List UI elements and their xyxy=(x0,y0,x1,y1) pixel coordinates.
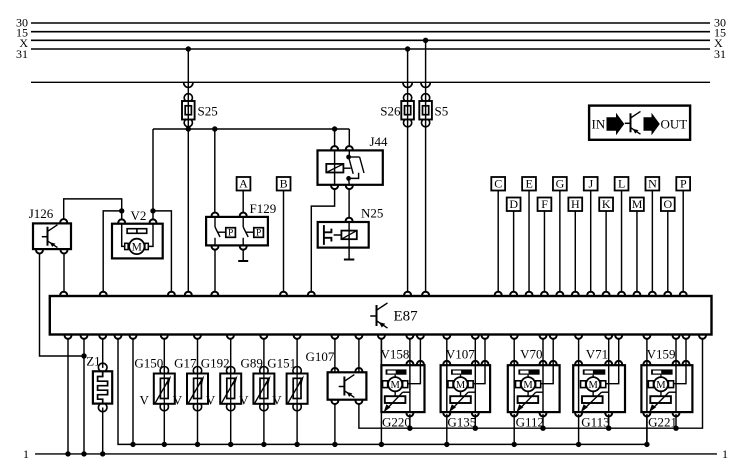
label B xyxy=(280,177,288,191)
svg-text:V: V xyxy=(272,392,282,407)
sender G113 thermistor xyxy=(581,392,603,412)
bus line 15 xyxy=(31,31,710,33)
wire G135 to rail xyxy=(473,414,478,431)
V158 motor xyxy=(383,377,408,391)
ground F129 xyxy=(238,260,248,262)
svg-text:F: F xyxy=(541,197,548,211)
label A xyxy=(239,177,248,191)
legend arrow out xyxy=(644,113,660,136)
heater Z1 box xyxy=(93,371,112,403)
svg-text:M: M xyxy=(523,380,533,391)
wire E87 to V70 A xyxy=(513,338,515,365)
plug C box and wire xyxy=(491,177,505,293)
bus line 5 xyxy=(31,81,710,83)
pin F129 bottom-right xyxy=(240,246,247,250)
svg-text:31: 31 xyxy=(714,47,726,61)
svg-text:G135: G135 xyxy=(447,414,476,429)
V158 internal wires xyxy=(395,365,420,412)
wire bus B1 xyxy=(153,128,349,130)
Z1 element xyxy=(98,371,108,403)
wire V159 to sub-bus xyxy=(644,414,649,447)
wire G107 to sub-bus xyxy=(332,403,337,447)
svg-text:1: 1 xyxy=(23,447,29,461)
svg-text:IN: IN xyxy=(592,117,606,132)
svg-text:31: 31 xyxy=(16,47,28,61)
wire J44 to N25 xyxy=(348,188,350,219)
valve N25 box xyxy=(318,222,369,248)
node B1-F129 tap xyxy=(212,126,217,131)
wire G220 to rail xyxy=(407,414,412,431)
F129 switch 1 xyxy=(215,217,235,246)
svg-text:V: V xyxy=(140,392,150,407)
pins V107 top xyxy=(443,361,488,365)
pin G107 top-right xyxy=(355,368,362,372)
V2 motor xyxy=(125,239,149,254)
svg-text:M: M xyxy=(456,380,466,391)
sensor sub-bus xyxy=(118,338,647,445)
label 1 right xyxy=(722,447,728,461)
svg-text:E: E xyxy=(525,177,532,191)
svg-text:J: J xyxy=(588,177,593,191)
pin J126 top xyxy=(60,219,67,223)
sender G150 with V gauge label xyxy=(134,338,174,447)
label J44 xyxy=(370,134,389,149)
plug N box and wire xyxy=(645,177,659,293)
pin J44 bottom-left xyxy=(331,185,338,189)
label 30 left xyxy=(16,15,28,29)
wire Z1 to bus1 xyxy=(102,408,104,454)
V107 motor xyxy=(448,377,473,391)
label V158 xyxy=(381,346,410,361)
wire E87 to V70 B xyxy=(542,338,544,365)
svg-text:M: M xyxy=(390,380,400,391)
svg-text:S5: S5 xyxy=(435,104,449,119)
sender G89 with V gauge label xyxy=(239,338,274,447)
wire V70 to sub-bus xyxy=(512,414,517,447)
V159 motor xyxy=(648,377,673,391)
svg-text:P: P xyxy=(256,228,261,238)
plug A box xyxy=(237,177,251,191)
svg-text:V: V xyxy=(239,392,249,407)
motor V107 box xyxy=(441,365,491,412)
plug E box and wire xyxy=(522,177,536,293)
label V159 xyxy=(647,346,676,361)
wire G221 to rail xyxy=(673,414,678,431)
plug B box xyxy=(277,177,291,191)
V2 internal wires xyxy=(122,224,153,247)
wire J44 contact feed xyxy=(348,129,350,147)
ground N25 xyxy=(344,259,354,261)
plug F box and wire xyxy=(538,197,552,293)
pin N25 top xyxy=(346,218,353,222)
svg-text:V159: V159 xyxy=(647,346,676,361)
svg-text:N: N xyxy=(648,177,657,191)
svg-text:V71: V71 xyxy=(586,346,608,361)
V71 internal wires xyxy=(579,365,619,412)
crossing hop S26 xyxy=(403,83,412,88)
coil J44 xyxy=(326,164,343,173)
svg-text:H: H xyxy=(571,197,580,211)
node S5 tap on line X xyxy=(423,38,428,43)
svg-text:V: V xyxy=(173,392,183,407)
label V2 xyxy=(131,208,147,223)
svg-text:A: A xyxy=(239,177,248,191)
crossing hop S5 xyxy=(421,83,430,88)
label J126 xyxy=(29,206,54,221)
wire N25 internal xyxy=(348,222,350,260)
svg-text:V107: V107 xyxy=(446,346,475,361)
pins V107 bottom xyxy=(443,412,478,416)
wire E87 to V158 C xyxy=(419,338,421,365)
node V2 left xyxy=(119,208,124,213)
wire F129 to ground xyxy=(242,249,244,261)
pin G107 bottom-right xyxy=(355,400,362,404)
wire E87 to V71 C xyxy=(618,338,620,365)
svg-text:J44: J44 xyxy=(370,134,389,149)
label 15 left xyxy=(16,26,28,40)
sender G221 thermistor xyxy=(649,392,671,412)
svg-text:M: M xyxy=(132,242,142,254)
wire E87 to V71 B xyxy=(608,338,610,365)
svg-text:D: D xyxy=(509,197,518,211)
plug J box and wire xyxy=(584,177,598,293)
wire S5 vertical upper xyxy=(425,40,427,292)
label S26 xyxy=(380,104,401,119)
node 133 sub-bus xyxy=(130,338,135,447)
wire V71 to sub-bus xyxy=(576,414,581,447)
svg-text:P: P xyxy=(228,228,233,238)
wire bus B1 down to V2 xyxy=(152,129,154,211)
J126 transistor xyxy=(42,225,58,248)
V70 motor xyxy=(516,377,541,391)
label E87 xyxy=(394,309,419,325)
F129 switch 2 xyxy=(243,217,263,246)
wire V2 right pin xyxy=(152,211,154,220)
label X left xyxy=(19,36,28,50)
wire B1 to F129 xyxy=(214,129,216,214)
svg-text:N25: N25 xyxy=(361,206,383,221)
sender G220 thermistor xyxy=(384,392,406,412)
wire E87 to G107 left xyxy=(334,338,336,372)
V158 commutator bar xyxy=(386,369,407,374)
svg-text:G107: G107 xyxy=(306,349,335,364)
wire S26 vertical upper xyxy=(407,49,409,293)
wire pin68 to bus1 xyxy=(67,338,69,454)
V2 resistor block xyxy=(127,229,147,234)
wire G113 to rail xyxy=(606,414,611,431)
wire E87 to V159 B xyxy=(675,338,677,365)
svg-text:G221: G221 xyxy=(648,414,677,429)
label G220 xyxy=(382,414,411,429)
svg-text:L: L xyxy=(618,177,625,191)
legend OUT label xyxy=(661,117,688,132)
node V2 right xyxy=(150,208,155,213)
fuse S25 xyxy=(182,94,195,127)
N25 solenoid xyxy=(341,231,356,240)
sensor G107 box xyxy=(328,372,367,399)
plug D box and wire xyxy=(507,197,521,293)
N25 plug symbol xyxy=(324,225,342,245)
V107 internal wires xyxy=(447,365,485,412)
pin F129 top-right xyxy=(240,213,247,217)
wire J126 br to E87 xyxy=(63,253,65,293)
wire E87 to G107 right xyxy=(358,338,360,372)
pin V2 top-right xyxy=(150,219,157,223)
wire E87 to V107 B xyxy=(474,338,476,365)
wire F129 to E87 xyxy=(214,249,216,293)
node J126-84 junction xyxy=(81,353,86,358)
svg-text:M: M xyxy=(588,380,598,391)
pins V70 bottom xyxy=(511,412,547,416)
legend IN label xyxy=(592,117,606,132)
crossing hop S25 xyxy=(184,83,193,88)
svg-text:S25: S25 xyxy=(198,104,218,119)
wire E87 to V107 A xyxy=(446,338,448,365)
pin F129 bottom-left xyxy=(212,246,219,250)
label 31 left xyxy=(16,47,28,61)
pins V159 top xyxy=(643,361,689,365)
pins V70 top xyxy=(511,361,557,365)
wire J126 top to V2 node xyxy=(64,199,122,220)
motor V2 box xyxy=(112,224,163,259)
pin J44 bottom-right xyxy=(346,185,353,189)
svg-text:S26: S26 xyxy=(380,104,401,119)
label X right xyxy=(714,36,723,50)
label G135 xyxy=(447,414,476,429)
svg-text:OUT: OUT xyxy=(661,117,688,132)
svg-text:M: M xyxy=(656,380,666,391)
V107 commutator bar xyxy=(451,369,472,374)
pin G107 top-left xyxy=(331,368,338,372)
wire G112 to rail xyxy=(540,414,545,431)
label V70 xyxy=(520,346,542,361)
label V107 xyxy=(446,346,475,361)
svg-text:E87: E87 xyxy=(394,309,419,325)
svg-text:G220: G220 xyxy=(382,414,411,429)
wire J44 to E87 xyxy=(311,188,334,293)
pins V158 top xyxy=(406,361,423,365)
wire E87 to V158 A xyxy=(380,338,382,365)
svg-text:F129: F129 xyxy=(250,201,277,216)
motor V71 box xyxy=(573,365,625,412)
node Z1 bus xyxy=(100,451,105,456)
bus line 1 bottom xyxy=(35,453,717,455)
wire E87 to Z1 xyxy=(102,338,104,368)
fuse S5 xyxy=(419,94,432,127)
wire E87 to V158 B xyxy=(409,338,411,365)
svg-text:V70: V70 xyxy=(520,346,542,361)
node S25-B1 xyxy=(186,126,191,131)
pins V159 bottom xyxy=(643,412,679,416)
motor V158 box xyxy=(381,365,424,412)
pin J44 top-right xyxy=(346,146,353,150)
plug K box and wire xyxy=(599,197,613,293)
plug L box and wire xyxy=(615,177,629,293)
svg-text:V2: V2 xyxy=(131,208,147,223)
svg-text:G192: G192 xyxy=(201,356,230,371)
V70 internal wires xyxy=(514,365,553,412)
fuse S26 xyxy=(401,94,414,127)
svg-text:G113: G113 xyxy=(581,414,609,429)
label F129 xyxy=(250,201,277,216)
node S26 tap on line 31 xyxy=(405,46,410,51)
V71 commutator bar xyxy=(583,369,606,374)
pin Z1 bottom xyxy=(98,404,107,412)
plug P box and wire xyxy=(676,177,690,293)
label 1 left xyxy=(23,447,29,461)
sender G17 with V gauge label xyxy=(173,338,208,447)
pin J44 top-left xyxy=(331,146,338,150)
node 84 xyxy=(81,451,86,456)
E87 transistor xyxy=(370,303,387,328)
sender G192 with V gauge label xyxy=(201,338,241,447)
wire A to F129 xyxy=(242,191,244,214)
pin J126 bottom-right xyxy=(61,249,68,253)
wire V2 right branch xyxy=(153,211,171,293)
wire E87 to V71 A xyxy=(578,338,580,365)
sender G135 thermistor xyxy=(449,392,471,412)
motor V159 box xyxy=(641,365,692,412)
motor V70 box xyxy=(508,365,560,412)
label S5 xyxy=(435,104,449,119)
sender G112 thermistor xyxy=(516,392,538,412)
control unit E87 box xyxy=(50,296,712,335)
switch F129 box xyxy=(206,217,268,246)
wire J44 coil internal xyxy=(334,150,336,184)
wire E87 to V2 node xyxy=(103,211,122,293)
wire J44 coil feed xyxy=(334,129,336,147)
pin Z1 top xyxy=(98,363,107,371)
pin V2 top-left xyxy=(118,219,125,223)
pin F129 top-left xyxy=(212,213,219,217)
plug O box and wire xyxy=(661,197,675,293)
svg-text:O: O xyxy=(664,197,673,211)
bus line 31 xyxy=(31,48,710,50)
svg-text:G: G xyxy=(556,177,565,191)
pins V158 bottom xyxy=(406,412,413,416)
label G221 xyxy=(648,414,677,429)
svg-text:B: B xyxy=(280,177,288,191)
label 15 right xyxy=(714,26,726,40)
label S25 xyxy=(198,104,218,119)
node S25 tap on line 31 xyxy=(186,46,191,51)
pins V71 top xyxy=(575,361,622,365)
pins E87 bottom xyxy=(65,335,706,339)
V159 commutator bar xyxy=(651,369,673,374)
svg-text:K: K xyxy=(602,197,611,211)
node 68 xyxy=(65,451,70,456)
wire S25 node to E87 xyxy=(187,129,189,293)
bus line X xyxy=(31,39,710,41)
wire V2 left pin xyxy=(121,211,123,220)
pin G107 bottom-left xyxy=(331,400,338,404)
wire E87 to V159 A xyxy=(646,338,648,365)
svg-text:G150: G150 xyxy=(134,356,163,371)
legend transistor xyxy=(625,111,641,134)
label 30 right xyxy=(714,15,726,29)
plug H box and wire xyxy=(568,197,582,293)
V159 internal wires xyxy=(647,365,686,412)
wire E87 to V70 C xyxy=(552,338,554,365)
G107 transistor xyxy=(339,375,355,398)
label 31 right xyxy=(714,47,726,61)
label V71 xyxy=(586,346,608,361)
wire V107 to sub-bus xyxy=(444,414,449,447)
wire J126 bl to Z1 column xyxy=(40,253,85,357)
legend arrow in xyxy=(607,113,625,136)
node B1-J44 tap xyxy=(332,126,337,131)
sender G151 with V gauge label xyxy=(267,338,307,447)
control unit J126 box xyxy=(33,223,71,249)
label G112 xyxy=(516,414,544,429)
wire E87 to V159 C xyxy=(685,338,687,365)
pins E87 top xyxy=(60,292,686,296)
svg-text:V: V xyxy=(206,392,216,407)
wire pin84 to bus1 xyxy=(83,338,85,454)
wire B to E87 xyxy=(283,191,285,293)
svg-text:V158: V158 xyxy=(381,346,410,361)
position rail xyxy=(359,338,703,428)
contact J44 xyxy=(343,150,364,184)
svg-text:C: C xyxy=(494,177,502,191)
wire E87 to V107 C xyxy=(484,338,486,365)
svg-text:G112: G112 xyxy=(516,414,544,429)
V71 motor xyxy=(581,377,606,391)
plug G box and wire xyxy=(553,177,567,293)
bus line 30 xyxy=(31,22,710,24)
pin J126 bottom-left xyxy=(36,249,43,253)
svg-text:G151: G151 xyxy=(267,356,296,371)
legend box xyxy=(589,106,690,140)
wire V158 to sub-bus xyxy=(379,338,384,447)
svg-text:P: P xyxy=(680,177,687,191)
label Z1 xyxy=(86,353,100,368)
pins V71 bottom xyxy=(575,412,612,416)
V70 commutator bar xyxy=(518,369,539,374)
label G113 xyxy=(581,414,609,429)
plug M box and wire xyxy=(630,197,644,293)
wire S25 vertical xyxy=(187,49,189,129)
label N25 xyxy=(361,206,383,221)
svg-text:M: M xyxy=(632,197,643,211)
label G107 xyxy=(306,349,335,364)
svg-text:J126: J126 xyxy=(29,206,54,221)
svg-text:1: 1 xyxy=(722,447,728,461)
relay J44 box xyxy=(318,150,383,184)
